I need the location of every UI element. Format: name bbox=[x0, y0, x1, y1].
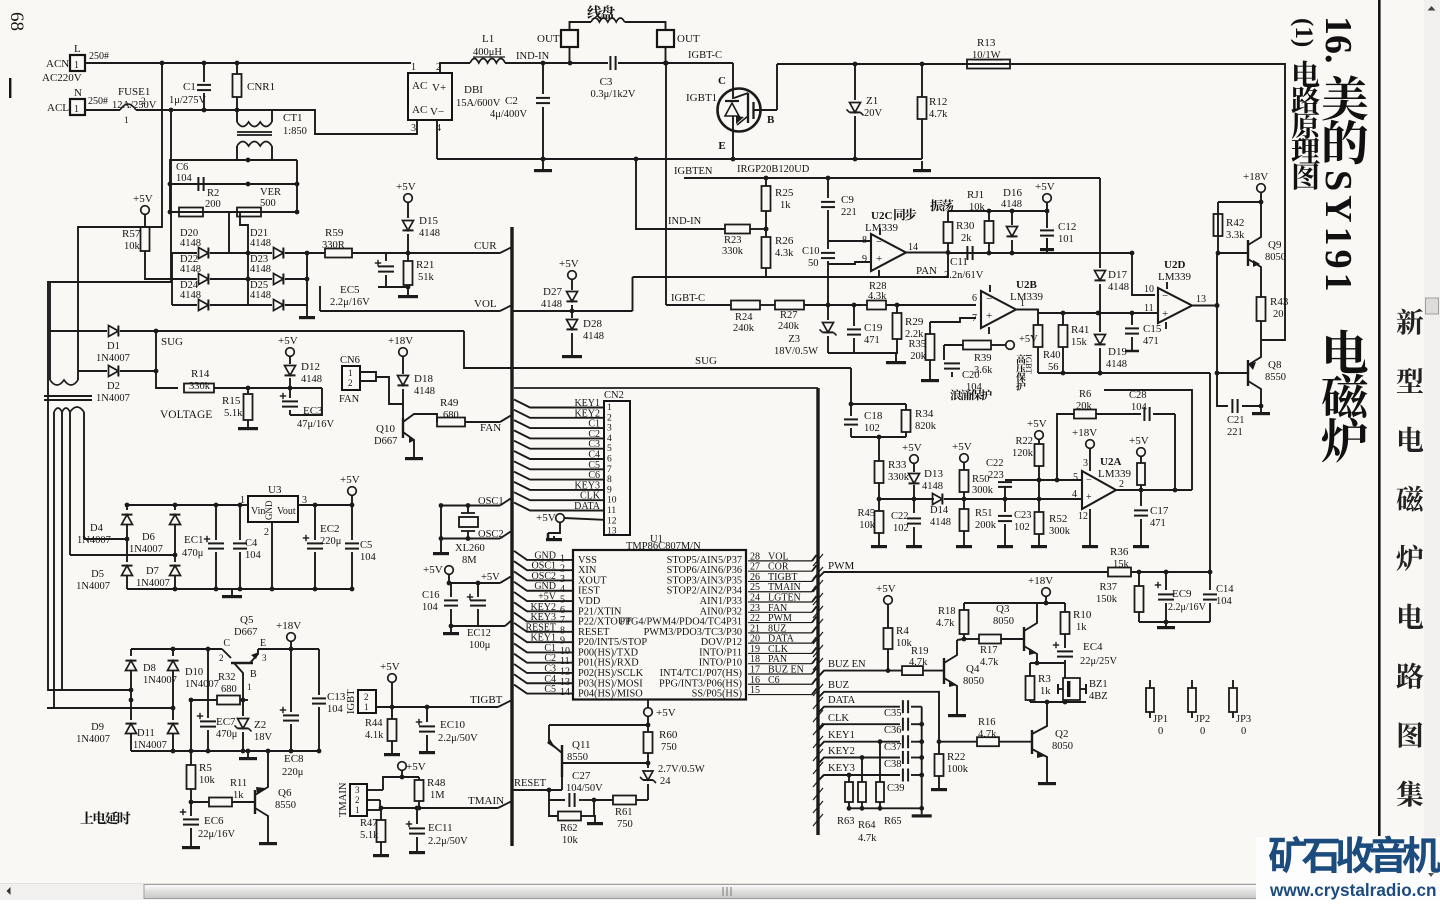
svg-text:V−: V− bbox=[430, 106, 444, 118]
svg-text:R47: R47 bbox=[360, 818, 378, 829]
svg-text:1k: 1k bbox=[1040, 686, 1051, 697]
pin +18V Q5 bbox=[287, 633, 296, 642]
svg-text:1M: 1M bbox=[430, 790, 445, 801]
wire IGBTEN line bbox=[684, 177, 1100, 179]
svg-text:R23: R23 bbox=[724, 235, 742, 246]
svg-text:104: 104 bbox=[422, 602, 439, 613]
svg-text:R13: R13 bbox=[977, 37, 996, 49]
svg-text:4.1k: 4.1k bbox=[365, 730, 384, 741]
wire U2D pin10 feed bbox=[1132, 253, 1155, 295]
capacitor C20 bbox=[944, 362, 960, 364]
resistor R43 bbox=[1257, 297, 1266, 321]
svg-text:47μ/16V: 47μ/16V bbox=[297, 419, 335, 430]
svg-text:R22: R22 bbox=[947, 751, 965, 763]
connector OUT right bbox=[657, 30, 674, 47]
svg-text:14: 14 bbox=[560, 687, 570, 698]
svg-text:15k: 15k bbox=[1071, 337, 1088, 348]
wire IND-IN bus bbox=[505, 62, 608, 64]
svg-text:4.3k: 4.3k bbox=[775, 248, 794, 259]
svg-text:240k: 240k bbox=[733, 323, 755, 334]
svg-text:TMAIN: TMAIN bbox=[468, 795, 504, 807]
svg-text:4.7k: 4.7k bbox=[936, 618, 955, 629]
svg-text:4148: 4148 bbox=[1106, 359, 1127, 370]
pin +18V U2A bbox=[1086, 440, 1095, 449]
wire R35 top to U2B plus bbox=[930, 318, 976, 322]
wire bridge2 top rail bbox=[131, 648, 222, 650]
resistor R3 bbox=[1029, 663, 1031, 676]
svg-text:8050: 8050 bbox=[1265, 252, 1286, 263]
transformer core bbox=[44, 395, 92, 397]
svg-text:EC12: EC12 bbox=[467, 628, 491, 639]
svg-text:220μ: 220μ bbox=[282, 767, 304, 778]
wire trunk branch to right trunk bbox=[514, 387, 818, 389]
ground Z2 rail bbox=[247, 751, 249, 757]
svg-text:+5V: +5V bbox=[1027, 418, 1047, 430]
svg-text:C17: C17 bbox=[1150, 505, 1169, 517]
svg-text:4148: 4148 bbox=[583, 331, 604, 342]
wire U2B out row to U2D bbox=[1038, 312, 1157, 314]
bridge rectifier DB1 bbox=[408, 73, 452, 120]
svg-text:IGBT-C: IGBT-C bbox=[688, 50, 722, 61]
wire U1 pin8 RESET bbox=[514, 623, 573, 632]
wire U1 pin3 OSC2 bbox=[514, 571, 573, 580]
crystal XL260 bbox=[459, 517, 478, 527]
scrollbar right bbox=[1424, 0, 1440, 883]
svg-text:C5: C5 bbox=[544, 684, 556, 695]
svg-text:4148: 4148 bbox=[414, 386, 435, 397]
svg-text:2: 2 bbox=[364, 692, 369, 702]
svg-text:1N4007: 1N4007 bbox=[129, 544, 163, 555]
node L terminal box ACN bbox=[70, 55, 85, 71]
svg-text:1: 1 bbox=[607, 403, 612, 413]
svg-text:4148: 4148 bbox=[250, 264, 271, 275]
svg-text:C38: C38 bbox=[884, 759, 902, 770]
svg-text:5: 5 bbox=[607, 444, 612, 454]
svg-text:104: 104 bbox=[245, 550, 262, 561]
svg-text:D11: D11 bbox=[137, 728, 155, 739]
wire IGBT gate riser bbox=[776, 64, 778, 110]
resistor R40 bbox=[1034, 325, 1043, 347]
resistor R42 bbox=[1217, 214, 1219, 236]
svg-text:CT1: CT1 bbox=[283, 112, 303, 124]
svg-text:5.1k: 5.1k bbox=[360, 830, 379, 841]
capacitor EC4 bbox=[1053, 644, 1059, 646]
wire crystal ground rail bbox=[440, 506, 442, 551]
svg-text:1N4007: 1N4007 bbox=[96, 353, 130, 364]
svg-text:C3: C3 bbox=[600, 76, 613, 88]
ground R15 bbox=[247, 420, 249, 427]
wire CT1 secondary legs bbox=[236, 146, 238, 160]
svg-text:R57: R57 bbox=[122, 228, 141, 240]
svg-text:470μ: 470μ bbox=[182, 548, 204, 559]
pin +5V C16 bbox=[445, 566, 454, 575]
svg-text:C13: C13 bbox=[327, 691, 346, 703]
svg-text:L: L bbox=[74, 43, 81, 55]
svg-text:5: 5 bbox=[1073, 472, 1078, 483]
svg-text:500: 500 bbox=[260, 198, 276, 209]
svg-text:4148: 4148 bbox=[250, 238, 271, 249]
transistor Q2 bbox=[1031, 730, 1033, 754]
wire N drop to x48 bbox=[48, 110, 171, 690]
svg-text:C1: C1 bbox=[183, 81, 196, 93]
svg-text:2k: 2k bbox=[961, 233, 972, 244]
svg-text:1:850: 1:850 bbox=[283, 126, 307, 137]
svg-text:471: 471 bbox=[1150, 518, 1166, 529]
svg-text:D6: D6 bbox=[142, 532, 155, 543]
svg-text:SUG: SUG bbox=[695, 355, 717, 367]
wire Q11 emitter to +5V rail bbox=[549, 724, 648, 726]
svg-text:R64: R64 bbox=[858, 820, 876, 831]
pin +5V R4 bbox=[884, 596, 893, 605]
ground Q8 bbox=[1260, 406, 1262, 412]
svg-text:10k: 10k bbox=[859, 520, 876, 531]
svg-text:+18V: +18V bbox=[276, 620, 301, 632]
svg-text:250#: 250# bbox=[88, 96, 108, 107]
svg-text:B: B bbox=[767, 114, 775, 126]
resistor R51 bbox=[963, 499, 965, 509]
resistor R48 bbox=[418, 777, 420, 780]
svg-text:2: 2 bbox=[141, 97, 146, 107]
svg-text:IGBT: IGBT bbox=[346, 689, 357, 714]
svg-text:+18V: +18V bbox=[1243, 171, 1268, 183]
svg-text:KEY1: KEY1 bbox=[828, 730, 855, 741]
resistor R2 bbox=[179, 208, 203, 217]
svg-text:R5: R5 bbox=[199, 762, 212, 774]
svg-text:D18: D18 bbox=[414, 373, 433, 385]
svg-text:L1: L1 bbox=[482, 33, 494, 45]
svg-text:+5V: +5V bbox=[1019, 334, 1038, 345]
svg-text:4BZ: 4BZ bbox=[1089, 691, 1108, 702]
wire SUG line left bbox=[156, 330, 464, 332]
wire SUG drop to C18 bbox=[850, 368, 852, 404]
wire CN2 pin3 bbox=[514, 420, 604, 428]
capacitor C12 bbox=[1046, 211, 1048, 228]
svg-text:R41: R41 bbox=[1071, 324, 1089, 336]
svg-text:KEY2: KEY2 bbox=[828, 746, 855, 757]
svg-text:3: 3 bbox=[355, 785, 360, 795]
wire U1 pin10 C1 bbox=[514, 643, 573, 652]
svg-text:D19: D19 bbox=[1108, 346, 1127, 358]
wire IGBT-C top bbox=[618, 62, 733, 64]
wire CN2 pin4 bbox=[514, 430, 604, 438]
svg-text:AC: AC bbox=[412, 80, 427, 92]
svg-text:50: 50 bbox=[808, 258, 819, 269]
ground C39 rail bbox=[921, 808, 923, 814]
svg-text:C14: C14 bbox=[1216, 584, 1234, 595]
svg-text:IND-IN: IND-IN bbox=[516, 51, 550, 62]
svg-text:D667: D667 bbox=[234, 627, 257, 638]
svg-text:JP3: JP3 bbox=[1236, 714, 1251, 725]
svg-text:Z1: Z1 bbox=[866, 95, 878, 107]
svg-text:+: + bbox=[986, 310, 992, 322]
svg-text:D1: D1 bbox=[107, 341, 120, 352]
capacitor C9 bbox=[827, 178, 829, 198]
svg-text:PAN: PAN bbox=[916, 265, 937, 277]
svg-text:4.7k: 4.7k bbox=[929, 109, 948, 120]
connector CN2 bbox=[604, 401, 630, 535]
svg-text:68: 68 bbox=[6, 12, 27, 31]
diode D1 bbox=[50, 330, 107, 332]
svg-text:R45: R45 bbox=[857, 508, 875, 519]
svg-text:C5: C5 bbox=[360, 540, 372, 551]
svg-text:8050: 8050 bbox=[963, 676, 984, 687]
capacitor EC9 bbox=[1155, 584, 1161, 586]
ground EC5 bbox=[407, 287, 409, 295]
wire U2B output bbox=[1016, 310, 1038, 326]
svg-text:C36: C36 bbox=[884, 725, 902, 736]
svg-text:Vout: Vout bbox=[277, 506, 296, 517]
svg-text:0: 0 bbox=[1158, 726, 1163, 737]
svg-text:C35: C35 bbox=[884, 708, 902, 719]
wire feedback R6 C28 bbox=[1057, 414, 1074, 480]
svg-text:0: 0 bbox=[1241, 726, 1246, 737]
svg-text:BZ1: BZ1 bbox=[1089, 679, 1108, 690]
svg-text:ACL: ACL bbox=[47, 102, 69, 114]
resistor R50 bbox=[960, 470, 969, 492]
svg-text:10k: 10k bbox=[562, 835, 579, 846]
capacitor C14 bbox=[1209, 572, 1211, 590]
svg-text:400μH: 400μH bbox=[473, 47, 502, 58]
capacitor EC6 bbox=[180, 811, 186, 813]
wire TIGBT line bbox=[376, 706, 498, 708]
capacitor C10 bbox=[821, 252, 835, 254]
svg-text:4μ/400V: 4μ/400V bbox=[490, 109, 528, 120]
svg-text:2: 2 bbox=[355, 795, 360, 805]
wire D2 to R14 row bbox=[156, 331, 178, 388]
svg-text:R29: R29 bbox=[905, 316, 924, 328]
svg-text:BUZ EN: BUZ EN bbox=[828, 659, 866, 670]
svg-text:1k: 1k bbox=[1076, 622, 1087, 633]
svg-text:R17: R17 bbox=[980, 645, 998, 656]
wire TMAIN wiring bbox=[367, 789, 383, 791]
svg-text:D17: D17 bbox=[1108, 269, 1127, 281]
pin +5V U3 bbox=[348, 487, 357, 496]
svg-text:4: 4 bbox=[1072, 489, 1077, 500]
ground EC9 rail bbox=[1139, 621, 1210, 623]
svg-text:1: 1 bbox=[411, 62, 416, 73]
transistor Q9 bbox=[1217, 252, 1248, 254]
transformer secondary bbox=[54, 407, 84, 412]
svg-text:+5V: +5V bbox=[406, 761, 426, 773]
pin +18V Q3 bbox=[1042, 588, 1051, 597]
svg-text:TMP86C807M/N: TMP86C807M/N bbox=[626, 541, 701, 552]
svg-text:R52: R52 bbox=[1049, 513, 1067, 525]
svg-text:104: 104 bbox=[1131, 402, 1148, 413]
jumper JP2 bbox=[1188, 688, 1196, 712]
svg-text:680: 680 bbox=[443, 410, 459, 421]
svg-text:Q11: Q11 bbox=[572, 739, 591, 751]
wire SUG corner to low row bbox=[464, 331, 851, 368]
svg-text:R16: R16 bbox=[978, 717, 996, 728]
svg-text:C20: C20 bbox=[962, 370, 980, 381]
capacitor C18 bbox=[851, 403, 906, 405]
ground CN2 bbox=[548, 522, 560, 533]
wire right trunk bbox=[816, 388, 819, 835]
svg-text:104/50V: 104/50V bbox=[566, 783, 603, 794]
wire bridge1 bottom rail bbox=[127, 588, 353, 590]
transistor Q11 bbox=[561, 745, 563, 777]
svg-text:CNR1: CNR1 bbox=[247, 81, 275, 93]
wire CN2 pin1 bbox=[514, 400, 604, 408]
svg-text:100k: 100k bbox=[947, 764, 969, 775]
resistor R22 120k bbox=[1035, 444, 1044, 466]
ground Q6 bbox=[267, 838, 269, 842]
wire U1 pin1 GND bbox=[514, 551, 573, 560]
svg-text:7: 7 bbox=[607, 465, 612, 475]
resistor R4 bbox=[887, 604, 889, 628]
jumper JP3 bbox=[1229, 688, 1237, 712]
svg-text:CN2: CN2 bbox=[604, 390, 624, 401]
capacitor EC11 bbox=[416, 808, 418, 824]
resistor R60 bbox=[647, 725, 649, 732]
svg-text:10k: 10k bbox=[199, 775, 216, 786]
svg-text:2.7V/0.5W: 2.7V/0.5W bbox=[658, 764, 705, 775]
capacitor EC7 bbox=[207, 649, 209, 718]
pin +5V CN2 bbox=[556, 514, 565, 523]
svg-text:13: 13 bbox=[607, 527, 617, 537]
svg-text:U2D: U2D bbox=[1164, 259, 1185, 271]
ground Q10 bbox=[413, 452, 415, 457]
svg-text:EC10: EC10 bbox=[440, 719, 466, 731]
svg-text:B: B bbox=[250, 669, 257, 680]
wire C16 EC12 bottom row bbox=[451, 625, 505, 627]
wire DATA line bbox=[818, 707, 900, 713]
svg-text:D27: D27 bbox=[543, 286, 562, 298]
pin +5V Q11 bbox=[644, 708, 653, 717]
wire sync line to U2D bbox=[948, 252, 1132, 254]
svg-text:www.crystalradio.cn: www.crystalradio.cn bbox=[1269, 880, 1437, 900]
wire feedback drop bbox=[1174, 414, 1176, 490]
svg-text:8: 8 bbox=[607, 475, 612, 485]
resistor R12 bbox=[921, 64, 923, 97]
svg-text:300k: 300k bbox=[972, 485, 994, 496]
ground EC6 bbox=[190, 844, 192, 846]
svg-text:EC7: EC7 bbox=[216, 716, 236, 728]
pin +5V out bbox=[1137, 448, 1146, 457]
wire Q5 base label bbox=[241, 698, 246, 703]
svg-text:LM339: LM339 bbox=[1158, 271, 1192, 283]
scrollbar bottom bbox=[0, 883, 1440, 900]
svg-text:1: 1 bbox=[364, 702, 369, 712]
buzzer BZ1 bbox=[1064, 663, 1066, 678]
wire CN2 pin9 bbox=[514, 482, 604, 490]
svg-text:C6: C6 bbox=[768, 675, 780, 686]
svg-text:D4: D4 bbox=[90, 523, 104, 534]
svg-text:Q2: Q2 bbox=[1055, 728, 1068, 740]
svg-text:+5V: +5V bbox=[1129, 435, 1149, 447]
capacitor EC3 bbox=[280, 395, 286, 397]
svg-text:EC6: EC6 bbox=[204, 815, 224, 827]
svg-text:120k: 120k bbox=[1012, 448, 1034, 459]
svg-text:+5V: +5V bbox=[536, 512, 556, 524]
svg-text:4.7k: 4.7k bbox=[858, 833, 877, 844]
svg-text:Q10: Q10 bbox=[376, 423, 395, 435]
resistor R24 bbox=[731, 301, 760, 310]
svg-text:D9: D9 bbox=[91, 722, 104, 733]
svg-text:1N4007: 1N4007 bbox=[76, 581, 110, 592]
wire FAN to trunk bbox=[465, 421, 500, 423]
svg-text:22μ/16V: 22μ/16V bbox=[198, 829, 236, 840]
wire U2C output bbox=[906, 252, 948, 254]
svg-text:R14: R14 bbox=[191, 368, 210, 380]
svg-text:9: 9 bbox=[607, 485, 612, 495]
svg-text:DATA: DATA bbox=[828, 695, 856, 706]
svg-text:EC3: EC3 bbox=[303, 405, 323, 417]
svg-text:300k: 300k bbox=[1049, 526, 1071, 537]
svg-text:V+: V+ bbox=[432, 82, 446, 94]
wire R14 to D12 bbox=[248, 387, 322, 389]
svg-text:102: 102 bbox=[864, 423, 880, 434]
svg-text:JP1: JP1 bbox=[1153, 714, 1168, 725]
svg-text:C6: C6 bbox=[176, 162, 188, 173]
wire U2A pin5 line bbox=[1005, 479, 1082, 481]
regulator U3 bbox=[248, 496, 298, 522]
connector CN6 bbox=[342, 366, 360, 390]
svg-text:SS/P05(HS): SS/P05(HS) bbox=[692, 689, 742, 700]
svg-text:6: 6 bbox=[607, 455, 612, 465]
svg-text:104: 104 bbox=[327, 704, 344, 715]
svg-text:+5V: +5V bbox=[656, 707, 676, 719]
resistor R22 100k bbox=[938, 742, 940, 754]
svg-text:R36: R36 bbox=[1110, 546, 1129, 558]
svg-text:1N4007: 1N4007 bbox=[77, 535, 111, 546]
svg-text:0: 0 bbox=[1200, 726, 1205, 737]
svg-text:R48: R48 bbox=[427, 777, 446, 789]
capacitor C15 bbox=[1131, 313, 1133, 325]
svg-text:+: + bbox=[1162, 308, 1168, 320]
svg-text:101: 101 bbox=[1058, 234, 1074, 245]
svg-text:8050: 8050 bbox=[1052, 741, 1073, 752]
capacitor C11 bbox=[966, 246, 968, 260]
svg-text:2: 2 bbox=[607, 413, 612, 423]
capacitor C19 bbox=[853, 305, 855, 326]
resistor R62 bbox=[549, 800, 558, 816]
resistor R65 bbox=[879, 742, 881, 782]
transistor Q4 bbox=[943, 658, 945, 684]
svg-text:R19: R19 bbox=[911, 646, 929, 657]
svg-text:TMAIN: TMAIN bbox=[338, 782, 349, 817]
svg-text:20V: 20V bbox=[864, 108, 883, 119]
diode D9 bbox=[130, 700, 132, 720]
capacitor C13 bbox=[318, 649, 320, 695]
svg-text:12: 12 bbox=[607, 516, 617, 526]
svg-text:8550: 8550 bbox=[275, 800, 296, 811]
svg-text:Q6: Q6 bbox=[278, 787, 292, 799]
svg-text:R44: R44 bbox=[365, 718, 383, 729]
svg-text:U3: U3 bbox=[268, 484, 282, 496]
svg-text:IRGP20B120UD: IRGP20B120UD bbox=[737, 164, 810, 175]
wire Z3 C19 R29 gnd row bbox=[828, 352, 898, 354]
resistor R17 bbox=[964, 638, 979, 640]
wire network to diode matrix bbox=[228, 212, 230, 254]
svg-text:RESET: RESET bbox=[514, 778, 547, 789]
diode D28 bbox=[571, 311, 573, 318]
svg-text:TIGBT: TIGBT bbox=[470, 694, 503, 706]
wire U1 pin6 KEY2 bbox=[514, 602, 573, 611]
diode D6 bbox=[174, 505, 176, 510]
diode D14 bbox=[933, 494, 943, 505]
capacitor C28 bbox=[1143, 407, 1145, 421]
ground D28 bbox=[571, 350, 573, 355]
wire out to Q8 region bbox=[1104, 390, 1192, 490]
page border line bbox=[1378, 0, 1381, 836]
svg-text:240k: 240k bbox=[778, 321, 800, 332]
svg-text:EC5: EC5 bbox=[340, 284, 360, 296]
ground Q4 bbox=[956, 712, 958, 714]
svg-text:IGBT-C: IGBT-C bbox=[671, 293, 705, 304]
svg-text:D28: D28 bbox=[583, 318, 602, 330]
node N terminal box ACL bbox=[70, 99, 85, 115]
